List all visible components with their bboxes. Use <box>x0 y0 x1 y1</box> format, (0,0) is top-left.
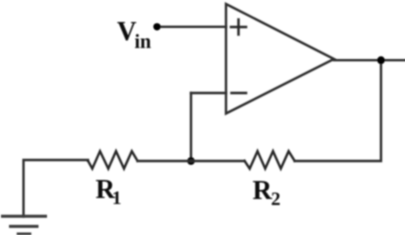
resistor R1 <box>88 151 138 168</box>
svg-text:R: R <box>253 175 273 205</box>
op-amp non-inverting input plus symbol <box>231 20 246 35</box>
label R1 <box>96 174 122 209</box>
ground <box>3 216 46 234</box>
wire R2 to output branch corner <box>295 60 381 161</box>
node Vin dot <box>153 23 160 30</box>
wire inverting input horizontal <box>191 92 226 94</box>
label R2 <box>253 175 281 210</box>
wire R1 to feedback junction <box>138 160 192 162</box>
resistor R2 <box>245 151 295 168</box>
svg-text:in: in <box>135 31 152 53</box>
op-amp inverting input minus symbol <box>232 92 247 95</box>
wire ground corner to R1 <box>24 160 89 217</box>
svg-text:1: 1 <box>112 188 122 209</box>
label Vin <box>117 16 151 53</box>
wire feedback vertical <box>190 93 192 161</box>
wire Vin node to + input <box>157 26 226 28</box>
op-amp U1 <box>226 4 334 114</box>
wire feedback junction to R2 <box>191 160 245 162</box>
svg-text:2: 2 <box>271 189 281 210</box>
wire op-amp output <box>334 59 405 61</box>
node feedback junction <box>187 157 195 165</box>
node output junction <box>377 56 385 64</box>
